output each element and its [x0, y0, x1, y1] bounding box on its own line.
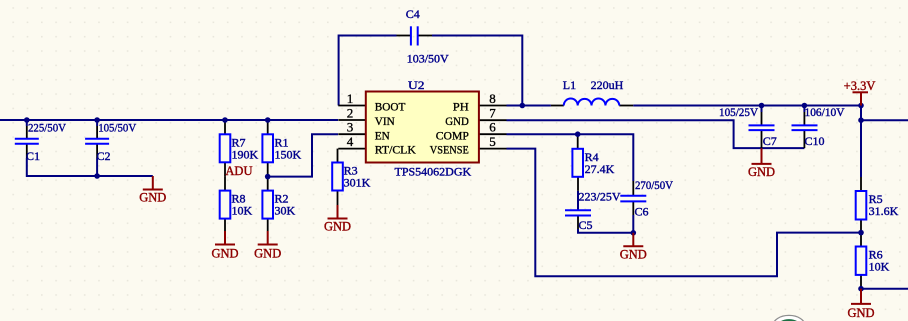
svg-text:2: 2: [347, 106, 354, 121]
svg-text:VSENSE: VSENSE: [430, 143, 469, 157]
svg-text:10K: 10K: [232, 204, 253, 218]
svg-text:220uH: 220uH: [591, 78, 624, 92]
svg-text:C5: C5: [579, 218, 593, 232]
svg-text:190K: 190K: [232, 147, 259, 161]
svg-text:27.4K: 27.4K: [585, 162, 615, 176]
svg-text:GND: GND: [139, 191, 166, 205]
svg-text:EN: EN: [375, 128, 390, 142]
svg-text:+3.3V: +3.3V: [844, 79, 876, 93]
svg-text:105/25V: 105/25V: [719, 105, 758, 119]
svg-text:31.6K: 31.6K: [869, 204, 899, 218]
svg-text:COMP: COMP: [436, 128, 469, 142]
svg-text:GND: GND: [748, 165, 775, 179]
svg-text:6: 6: [489, 120, 496, 135]
svg-text:U2: U2: [408, 78, 425, 92]
svg-text:C10: C10: [805, 134, 825, 148]
svg-text:8: 8: [489, 91, 496, 106]
svg-text:106/10V: 106/10V: [805, 105, 845, 119]
svg-text:103/50V: 103/50V: [407, 52, 449, 66]
svg-text:105/50V: 105/50V: [98, 121, 136, 135]
svg-text:301K: 301K: [344, 176, 371, 190]
svg-text:ADU: ADU: [225, 164, 252, 178]
svg-text:225/50V: 225/50V: [28, 121, 66, 135]
svg-text:5: 5: [489, 134, 496, 149]
svg-text:PH: PH: [453, 100, 469, 114]
svg-text:C7: C7: [763, 134, 777, 148]
svg-text:150K: 150K: [275, 147, 302, 161]
svg-text:30K: 30K: [275, 204, 296, 218]
svg-text:1: 1: [347, 91, 354, 106]
svg-text:GND: GND: [211, 247, 238, 261]
svg-text:GND: GND: [620, 247, 647, 261]
svg-text:RT/CLK: RT/CLK: [375, 143, 416, 157]
svg-text:C4: C4: [406, 7, 420, 21]
svg-text:L1: L1: [563, 78, 576, 92]
svg-text:7: 7: [489, 106, 496, 121]
svg-text:GND: GND: [847, 306, 874, 320]
svg-text:GND: GND: [254, 247, 281, 261]
svg-text:TPS54062DGK: TPS54062DGK: [395, 165, 472, 179]
svg-text:3: 3: [347, 120, 354, 135]
svg-text:270/50V: 270/50V: [635, 178, 673, 192]
svg-text:C6: C6: [635, 205, 649, 219]
svg-text:VIN: VIN: [375, 114, 395, 128]
svg-text:GND: GND: [324, 219, 351, 233]
svg-text:4: 4: [347, 134, 354, 149]
svg-text:10K: 10K: [869, 260, 890, 274]
svg-text:BOOT: BOOT: [375, 100, 406, 114]
svg-text:C2: C2: [97, 149, 111, 163]
svg-text:C1: C1: [26, 149, 40, 163]
svg-text:GND: GND: [445, 114, 469, 128]
svg-text:223/25V: 223/25V: [579, 189, 621, 203]
